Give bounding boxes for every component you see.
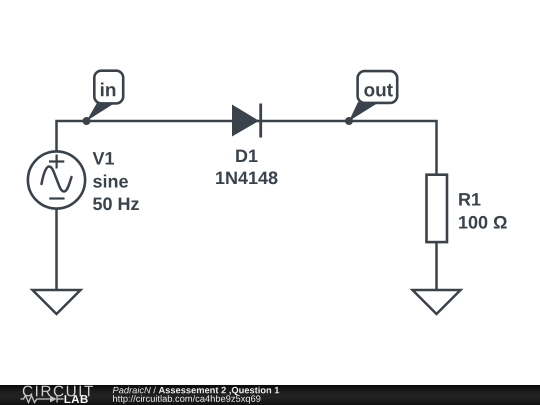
voltage source V1	[28, 151, 85, 208]
label D1	[236, 150, 257, 162]
wire: V1 top lead + top horizontal through D1 + R1 top lead	[57, 121, 437, 175]
logo doodle: diode symbol	[50, 396, 57, 403]
value label sine	[93, 175, 128, 188]
wire: V1 bottom lead to ground	[55, 208, 58, 291]
footer black bar	[0, 385, 540, 405]
label R1	[459, 193, 480, 205]
node junction dot "in"	[83, 117, 91, 125]
diode D1	[232, 104, 261, 138]
node flag "in"	[87, 71, 124, 121]
wire: R1 bottom lead to ground	[435, 242, 438, 291]
footer title: PadraicN / Assessement 2 ,Question 1	[113, 387, 279, 396]
value label 1N4148	[216, 171, 277, 184]
CircuitLab logo text CIRCUIT	[23, 386, 93, 397]
ground (left, under V1)	[33, 290, 81, 314]
resistor R1	[427, 175, 448, 242]
logo doodle: wire + resistor zigzag	[21, 396, 64, 403]
logo text LAB	[65, 395, 88, 403]
ground (right, under R1)	[413, 290, 461, 314]
value label 100 Ohm	[459, 216, 507, 229]
node junction dot "out"	[345, 117, 353, 125]
footer url text line	[113, 395, 260, 404]
value label 50 Hz	[93, 197, 139, 210]
label V1	[93, 152, 114, 164]
node flag "out"	[349, 71, 397, 121]
